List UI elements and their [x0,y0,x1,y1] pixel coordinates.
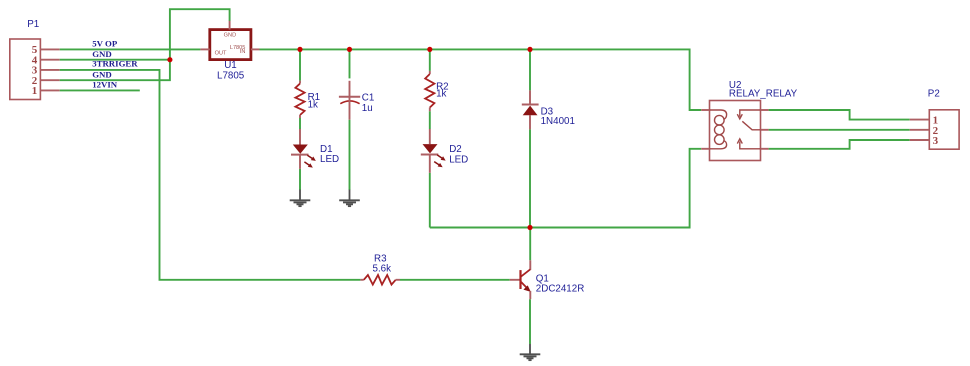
svg-text:U1: U1 [224,60,237,71]
svg-text:3: 3 [933,135,939,147]
wire C1 top [349,49,351,78]
pin COM of U2 (right middle) [761,129,769,131]
svg-text:LED: LED [320,154,339,165]
LED D2 [421,129,447,173]
wire D1 to ground [299,169,301,190]
wire Q1 emitter to ground [529,299,531,344]
junction rail at C1 [347,47,352,52]
pin coil- of U2 (left bottom) [701,148,709,150]
pin GND of U1 (top) [229,21,231,30]
svg-text:5.6k: 5.6k [373,264,392,275]
svg-text:2DC2412R: 2DC2412R [536,284,584,295]
svg-text:C1: C1 [362,93,375,104]
wire R1 top [299,49,301,80]
wire R1 to D1 [299,118,301,129]
wire top supply rail from U1 IN to relay coil [260,49,702,110]
junction rail at R2 [427,47,432,52]
wire bottom rail to relay coil bottom [430,149,701,228]
pin OUT of U1 (left) [200,48,209,50]
relay switch of U2 [737,110,760,149]
pin 3 of P1 [32,65,60,77]
pin 3 of P2 [910,135,939,147]
wire Q1 collector [529,228,531,261]
pin 5 of P1 [32,44,60,56]
wire GND from P1 pin2 up to junction and over to U1 GND pin [60,9,230,80]
diode D3 [522,90,539,129]
svg-text:1k: 1k [308,99,318,110]
pin coil+ of U2 (left top) [701,109,709,111]
regulator U1 L7805 [210,30,251,60]
pin NO of U2 (right top) [761,109,769,111]
resistor R2 [425,71,434,111]
wire R3 to Q1 base [400,279,510,281]
connector P2 [929,110,959,149]
wire D3 bottom [529,129,531,227]
wire D2 to bottom rail [429,173,431,228]
pin 1 of P2 [910,115,938,127]
svg-text:1: 1 [32,85,38,97]
resistor R1 [295,81,304,118]
junction on GND net [167,57,172,62]
junction bottom rail at Q1 collector [527,225,532,230]
pin 2 of P1 [32,75,60,87]
wire D3 top [529,49,531,90]
wire relay common to P2 pin2 [769,129,910,131]
svg-text:GND: GND [224,33,236,39]
svg-text:GND: GND [92,70,112,80]
pin 2 of P2 [910,125,939,137]
LED D1 [291,129,317,169]
wire relay coil bottom to P2 pin3 [769,140,910,149]
wire relay NO contact to P2 pin1 [769,110,910,120]
relay U2 [710,101,761,161]
connector P1 [10,39,41,100]
svg-text:OUT: OUT [215,50,227,56]
wire 5V OP from P1 pin5 to U1 OUT [60,48,201,50]
svg-text:P2: P2 [928,89,940,100]
svg-text:1k: 1k [436,89,446,100]
capacitor C1 [339,81,360,120]
svg-text:1u: 1u [362,103,373,114]
svg-text:RELAY_RELAY: RELAY_RELAY [729,89,798,100]
pin 1 of P1 [32,85,60,97]
svg-text:L7805: L7805 [217,71,245,82]
wire C1 to ground [349,120,351,190]
svg-text:LED: LED [449,155,468,166]
junction rail at R1 [297,47,302,52]
transistor Q1 [510,260,531,299]
wire GND from P1 pin4 to junction [60,59,170,61]
pin NC of U2 (right bottom) [761,148,769,150]
pin IN of U1 (right) [251,48,260,50]
junction rail at D3 [527,47,532,52]
ground under D1 [290,190,311,207]
pin 4 of P1 [32,55,60,67]
svg-text:1N4001: 1N4001 [541,116,575,127]
wire R2 to D2 [429,111,431,129]
wire 12VIN stub from P1 pin1 [60,89,140,91]
wire 3TRRIGER from P1 pin3 down to R3 [60,70,361,280]
svg-text:P1: P1 [27,19,39,30]
svg-text:D2: D2 [449,144,462,155]
svg-text:IN: IN [240,49,246,55]
ground under C1 [339,190,360,207]
wire R2 top [429,49,431,71]
resistor R3 [360,275,400,285]
relay coil of U2 [710,110,727,149]
svg-text:5V OP: 5V OP [92,39,118,49]
ground under Q1 [520,344,541,360]
